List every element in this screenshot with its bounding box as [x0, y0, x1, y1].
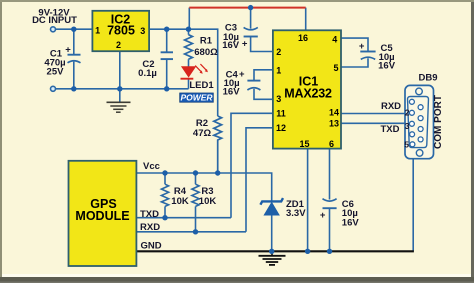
svg-text:1: 1	[95, 25, 100, 35]
wire IC1 pin11 to TXD	[231, 113, 273, 217]
wire LED1 cathode down	[188, 80, 190, 89]
svg-text:13: 13	[329, 118, 339, 128]
svg-text:16V: 16V	[222, 40, 240, 51]
svg-text:16V: 16V	[342, 218, 360, 229]
wire zener to ground bus	[271, 215, 273, 252]
wire IC1 pin6 to C6	[329, 149, 331, 200]
svg-text:2: 2	[116, 40, 121, 50]
svg-text:7805: 7805	[107, 24, 135, 38]
svg-text:6: 6	[329, 139, 334, 149]
wire IC1 pin15 to ground bus	[307, 149, 309, 252]
frame bottom bevel highlight	[2, 274, 471, 277]
wire DB9 pin5 to ground bus	[412, 146, 414, 251]
wire C6 to ground bus	[329, 208, 331, 251]
wire C1 lower	[73, 62, 75, 89]
wire top rail left (terminal to IC2 pin1)	[56, 28, 93, 30]
svg-text:0.1µ: 0.1µ	[138, 68, 157, 79]
DB9 connector	[404, 72, 444, 158]
capacitor C6 plates	[323, 199, 337, 209]
input terminal top	[51, 27, 56, 32]
svg-text:3: 3	[276, 94, 281, 104]
zener diode ZD1	[260, 198, 283, 215]
wire red riser right (IC1 pin16)	[305, 8, 307, 31]
svg-text:+: +	[242, 38, 248, 49]
wire Vcc rail to zener	[136, 173, 271, 201]
input terminal bottom	[51, 86, 56, 91]
svg-text:12: 12	[276, 123, 286, 133]
svg-text:16V: 16V	[378, 61, 396, 72]
wire R3 top	[195, 173, 197, 184]
resistor R1 zigzag	[185, 35, 193, 60]
capacitor C3 plates	[244, 27, 258, 36]
frame bottom border	[0, 277, 474, 282]
wire IC1 pin4 to C5	[341, 38, 368, 51]
wire C2 branch	[166, 29, 168, 52]
frame left border	[0, 2, 2, 283]
wire IC2 pin2 down	[119, 51, 121, 101]
svg-text:14: 14	[329, 108, 339, 118]
svg-text:3: 3	[405, 121, 410, 131]
wire top +5V rail (IC2 pin3 to corner)	[149, 29, 218, 116]
ground symbol under IC2	[107, 102, 131, 112]
svg-text:47Ω: 47Ω	[193, 128, 212, 139]
svg-text:2: 2	[276, 47, 281, 57]
svg-text:DB9: DB9	[418, 72, 437, 83]
svg-text:5: 5	[404, 139, 409, 149]
svg-text:2: 2	[405, 107, 410, 117]
wire red riser left	[188, 8, 190, 30]
svg-text:15: 15	[299, 139, 309, 149]
frame right border	[471, 2, 474, 283]
svg-text:GND: GND	[141, 240, 162, 251]
wire R4 top	[164, 173, 166, 184]
wire C4 bottom to IC1 pin3	[254, 89, 273, 99]
resistor R4 zigzag	[161, 184, 168, 206]
svg-text:3: 3	[140, 26, 145, 36]
svg-text:+: +	[359, 41, 365, 52]
svg-text:RXD: RXD	[381, 101, 401, 112]
svg-text:MODULE: MODULE	[75, 209, 129, 223]
wire IC1 pin14 RXD to DB9	[341, 113, 410, 115]
svg-text:16: 16	[298, 33, 308, 43]
wire IC1 pin12 to RXD	[246, 128, 273, 232]
svg-text:5: 5	[333, 63, 338, 73]
wire RXD row	[136, 231, 246, 233]
capacitor C5 plates	[360, 52, 375, 60]
svg-text:DC INPUT: DC INPUT	[32, 15, 77, 26]
svg-text:680Ω: 680Ω	[194, 47, 218, 58]
svg-text:COM PORT: COM PORT	[433, 95, 444, 149]
capacitor C1 plates	[68, 55, 81, 63]
resistor R2 zigzag	[214, 116, 222, 173]
svg-text:1: 1	[276, 66, 281, 76]
svg-text:4: 4	[332, 35, 337, 45]
svg-text:+: +	[320, 210, 326, 221]
wire IC1 pin13 TXD to DB9	[341, 122, 410, 124]
svg-text:R1: R1	[200, 36, 213, 47]
wire R4 bottom	[164, 206, 166, 217]
GPS MODULE box	[69, 161, 137, 266]
svg-text:10K: 10K	[171, 196, 189, 207]
svg-text:RXD: RXD	[140, 222, 160, 233]
POWER label box	[180, 93, 214, 102]
wire TXD row	[136, 217, 231, 219]
red +5V wire	[189, 7, 305, 9]
ground bus (black)	[136, 250, 414, 252]
svg-text:TXD: TXD	[381, 124, 400, 135]
wire R1 to LED1	[188, 59, 190, 66]
wire C1 branch	[73, 29, 75, 55]
svg-text:10K: 10K	[199, 196, 217, 207]
svg-text:3.3V: 3.3V	[286, 208, 306, 219]
svg-text:TXD: TXD	[140, 209, 159, 220]
svg-text:MAX232: MAX232	[284, 86, 332, 100]
svg-text:Vcc: Vcc	[143, 161, 160, 172]
capacitor C4 plates	[247, 81, 260, 90]
wire C5 to IC1 pin5	[341, 58, 368, 67]
IC2 7805 box	[92, 11, 149, 51]
svg-text:+: +	[65, 45, 71, 56]
ground symbol at ground bus	[259, 251, 286, 265]
wire C3 to IC1 pin2	[251, 37, 273, 52]
svg-text:+: +	[239, 69, 245, 80]
LED1 symbol	[181, 64, 208, 79]
wire R1 top	[188, 29, 190, 35]
frame bottom edge	[0, 282, 474, 283]
svg-text:11: 11	[276, 109, 286, 119]
wire bottom input rail	[56, 88, 189, 90]
wire C2 lower	[166, 59, 168, 89]
frame top border	[0, 0, 474, 2]
svg-text:LED1: LED1	[189, 80, 214, 91]
svg-text:16V: 16V	[223, 87, 241, 98]
capacitor C2 plates	[161, 52, 173, 59]
IC1 MAX232 box	[273, 30, 341, 148]
svg-text:POWER: POWER	[180, 93, 213, 103]
wire R3 bottom	[195, 206, 197, 231]
resistor R3 zigzag	[192, 184, 199, 206]
wire C4 top to IC1 pin1	[254, 70, 273, 81]
wire C3 top	[250, 8, 252, 29]
svg-text:25V: 25V	[47, 66, 65, 77]
